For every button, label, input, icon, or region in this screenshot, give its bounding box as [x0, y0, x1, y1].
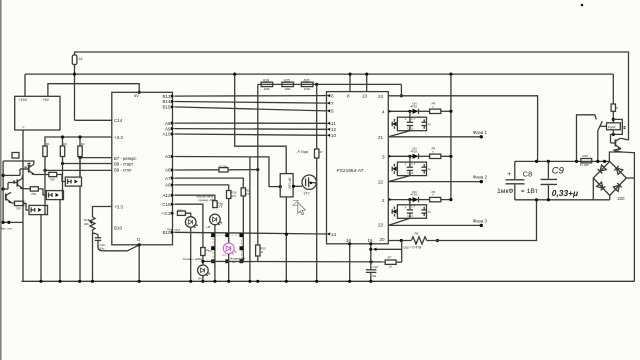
node bottom link dots	[201, 260, 204, 263]
svg-text:16: 16	[346, 238, 352, 243]
svg-text:C15: C15	[162, 202, 171, 207]
wire R16v down to selected LED	[228, 199, 230, 244]
wire opto U4 column down	[40, 215, 42, 282]
resistor R15	[201, 248, 205, 256]
svg-text:4F28: 4F28	[411, 104, 418, 108]
capacitor Cb1a	[409, 117, 411, 131]
wire ground bus	[22, 280, 635, 282]
wire VT3 gate	[293, 185, 302, 187]
wire opto U3 column down	[59, 200, 61, 282]
bootstrap box 2	[397, 162, 426, 176]
svg-text:R16: R16	[583, 154, 589, 158]
svg-text:3: 3	[382, 155, 385, 160]
wire A8 to pin11	[174, 122, 326, 124]
switch SW1 contact	[598, 121, 603, 130]
svg-text:+3.3: +3.3	[114, 135, 123, 140]
svg-text:VT3: VT3	[304, 192, 310, 196]
wire bridge left vertex down	[592, 178, 594, 200]
wire Q2 base	[8, 182, 17, 184]
wire pin16 down to bus	[349, 244, 351, 281]
resistor R19 bottom of chain column	[256, 245, 260, 256]
svg-text:6: 6	[331, 93, 334, 98]
node relay bottom	[612, 133, 615, 136]
wire VT3 source down to bus	[316, 183, 318, 281]
node R6 left	[400, 239, 403, 242]
svg-text:14: 14	[331, 232, 337, 237]
transistor Q1	[28, 166, 30, 173]
node pin15/arrow junction	[369, 248, 372, 251]
resistor R6 shunt zigzag	[411, 237, 427, 244]
selection handles	[211, 233, 215, 237]
wire chain top	[258, 83, 402, 85]
svg-text:Сд·З··: Сд·З··	[407, 214, 415, 218]
wire pullup columns down	[79, 157, 81, 178]
node terminal dots	[1, 221, 4, 224]
svg-text:75R: 75R	[31, 192, 36, 196]
capacitor Cb2b	[423, 164, 425, 174]
svg-text:(пο.): (пο.)	[222, 253, 228, 257]
svg-text:27: 27	[320, 150, 324, 154]
svg-text:R2: R2	[64, 142, 68, 146]
svg-text:Вкл. пит: Вкл. пит	[1, 226, 13, 230]
resistor R1 pullup	[43, 146, 47, 157]
wire C14 to IC	[75, 119, 112, 121]
IC U6 PS21964-AT	[327, 92, 389, 244]
wire A12 to R14	[174, 195, 215, 201]
svg-text:B9 - стоп: B9 - стоп	[114, 167, 131, 172]
capacitor C9	[547, 161, 549, 199]
svg-text:R25: R25	[284, 78, 290, 82]
wire U2 top feed	[79, 158, 81, 178]
wire phase output 1	[388, 136, 481, 138]
svg-text:A8: A8	[165, 121, 171, 126]
LED D2 indicator	[210, 214, 221, 225]
svg-text:13: 13	[362, 94, 368, 99]
wire Q1 emitter to R4	[34, 174, 49, 176]
svg-text:КН: КН	[198, 277, 202, 281]
svg-text:РэлR: РэлR	[608, 125, 616, 129]
wire +15V pin drop	[24, 74, 26, 96]
svg-text:A7: A7	[165, 176, 171, 181]
wire bridge bottom stub	[609, 196, 611, 200]
LED D1 indicator	[185, 217, 196, 228]
svg-text:4F28: 4F28	[411, 149, 418, 153]
wire chain column x258	[257, 84, 259, 245]
transistor VT3 MOSFET	[302, 175, 316, 189]
wire C8C9 top rail	[515, 160, 610, 162]
driver IC U5 gate driver	[280, 174, 293, 197]
wire RTorm to drain	[316, 158, 318, 183]
tick on collector wire	[28, 163, 31, 165]
svg-text:20: 20	[380, 237, 386, 242]
svg-text:C16: C16	[373, 265, 379, 269]
wire R5 to opto U3	[38, 189, 46, 195]
svg-text:A12: A12	[162, 193, 171, 198]
svg-text:+15V: +15V	[19, 98, 28, 102]
node driver/B10 crossing	[285, 233, 288, 236]
wire bottom link y261	[203, 260, 385, 263]
transistor Q3	[5, 194, 7, 201]
wire A3 to driver input	[174, 157, 280, 187]
svg-text:75R: 75R	[50, 178, 55, 182]
svg-text:Точная с шИМ: Точная с шИМ	[183, 257, 203, 261]
wire bus drop x234.7 to driver supply	[235, 74, 287, 174]
wire R6L to opto U4	[24, 203, 29, 210]
svg-text:23: 23	[378, 223, 384, 228]
svg-text:1μ: 1μ	[428, 167, 431, 171]
zener VD2z	[392, 167, 396, 172]
wire fuse down to C14 pin	[74, 65, 76, 121]
bootstrap box 1	[397, 117, 426, 131]
wire relay wrap	[613, 119, 622, 134]
node bus drop	[233, 73, 236, 76]
node pin24 junction	[400, 94, 403, 97]
svg-text:7: 7	[331, 101, 334, 106]
svg-text:1мкФ: 1мкФ	[497, 188, 514, 195]
svg-text:220: 220	[618, 196, 626, 201]
resistor R9a	[430, 109, 441, 113]
node rail taps	[535, 160, 538, 163]
svg-text:Фаза 3: Фаза 3	[473, 218, 488, 223]
svg-text:+5V: +5V	[43, 98, 50, 102]
svg-text:B14: B14	[162, 99, 171, 104]
resistor R3 pullup	[78, 146, 82, 157]
wire top rail drop to VT4 collector	[621, 138, 629, 140]
svg-text:1μ: 1μ	[428, 122, 431, 126]
wire R7 right up	[396, 261, 402, 263]
svg-text:ЗР-130: ЗР-130	[287, 178, 291, 189]
node cap tap 2	[408, 155, 411, 158]
svg-text:8: 8	[347, 94, 350, 99]
svg-text:A6: A6	[165, 168, 171, 173]
wire P loop	[577, 115, 597, 162]
wire chain down to pin24	[400, 84, 402, 95]
svg-text:A9: A9	[165, 126, 171, 131]
svg-text:A3: A3	[165, 154, 171, 159]
svg-text:C14: C14	[114, 118, 123, 123]
svg-text:Фаза 1: Фаза 1	[473, 130, 488, 135]
svg-text:B13: B13	[162, 94, 171, 99]
wire opto U2 column down	[79, 186, 81, 281]
node G pin	[138, 243, 141, 246]
wire switch pivot down	[597, 131, 599, 162]
wire cap tap down 3	[409, 200, 411, 205]
wire bridge right vertex out	[626, 177, 634, 179]
svg-text:+3.3: +3.3	[162, 211, 171, 216]
wire B9 line	[45, 169, 112, 171]
optocoupler U4	[29, 205, 48, 214]
resistor R16 series	[581, 159, 592, 163]
resistor R9b	[430, 154, 441, 158]
diode VD2	[413, 154, 419, 159]
wire R6 right to C8 column	[427, 200, 537, 241]
node cap tap 1	[408, 110, 411, 113]
wire diagonal pin2 to box	[388, 176, 410, 182]
svg-text:R Торм: R Торм	[298, 150, 310, 154]
wire diagonal pin1 to box	[388, 131, 410, 137]
node phase terminal 2	[480, 180, 483, 183]
wire +3.3 rail to pullups	[45, 137, 112, 146]
node pullup taps	[61, 135, 64, 138]
svg-text:Реж. пуск: Реж. пуск	[168, 228, 181, 232]
wire R17v down	[242, 196, 244, 262]
optocoupler U2	[65, 177, 81, 186]
wire pin line 3	[388, 199, 412, 201]
svg-text:R3: R3	[81, 142, 85, 146]
capacitor Cb3b	[423, 207, 425, 217]
svg-text:50n: 50n	[100, 246, 105, 250]
svg-text:21: 21	[378, 135, 384, 140]
wire U4 top feed	[44, 205, 46, 214]
svg-text:4F28: 4F28	[411, 193, 418, 197]
svg-text:R·10к: R·10к	[220, 165, 228, 169]
resistor R26	[301, 82, 313, 86]
svg-text:Rв: Rв	[373, 274, 377, 278]
svg-text:C8: C8	[523, 170, 532, 179]
wire +15V bus y74	[25, 73, 613, 75]
wire diagonal to G pin	[128, 245, 140, 251]
svg-text:Ржд: Ржд	[206, 249, 212, 253]
optocoupler U3	[46, 191, 63, 200]
power supply module PSU	[15, 96, 60, 130]
Z mark annotation	[293, 200, 299, 205]
wire R9 to vcc	[441, 110, 451, 112]
svg-text:5V: 5V	[134, 93, 139, 98]
wire R9 to vcc	[441, 199, 451, 201]
node fuse/bus junction	[73, 73, 76, 76]
svg-text:C·T: C·T	[411, 162, 416, 166]
wire B15 to pin5	[174, 107, 326, 111]
svg-text:КТ 480: КТ 480	[580, 163, 589, 167]
svg-text:100k: 100k	[285, 87, 292, 91]
transistor Q2	[16, 180, 18, 187]
svg-text:R7: R7	[388, 256, 392, 260]
node chain/A6 junction	[256, 168, 259, 171]
wire A3 column x250 down to bus	[249, 157, 251, 282]
svg-text:+: +	[405, 205, 407, 209]
wire left collector rail y161	[3, 161, 34, 165]
wire relay coil left lead	[600, 125, 606, 127]
wire VT4 emitter zigzag	[609, 149, 621, 162]
node bottom rail tap	[535, 198, 538, 201]
wire pin24 to C8 rail	[388, 96, 537, 162]
svg-text:R26: R26	[304, 78, 310, 82]
wire phase output 2	[388, 181, 481, 183]
wire bottom terminal pair	[3, 221, 23, 223]
wire A10 to pin10	[174, 134, 326, 135]
wire pin15 column	[370, 244, 372, 270]
bootstrap box 3	[397, 205, 426, 219]
wire R22 to relay	[612, 111, 614, 123]
svg-text:100k: 100k	[304, 87, 311, 91]
resistor R13 on +3.3	[177, 211, 185, 215]
zener VD3z	[392, 209, 396, 214]
svg-text:B8 - старт: B8 - старт	[114, 162, 133, 167]
wire B10 to PS pin14	[174, 232, 326, 234]
svg-text:= 1Вт: = 1Вт	[521, 188, 538, 195]
wire Q2 collector up	[21, 175, 23, 178]
svg-text:4: 4	[382, 109, 385, 114]
wire Q3 emitter to R6L	[11, 202, 14, 205]
wire arrow annotation to pin15	[377, 248, 402, 250]
svg-text:Фаза 2: Фаза 2	[473, 175, 488, 180]
svg-text:Uш = 0.47В: Uш = 0.47В	[404, 246, 423, 250]
wire cap tap down 1	[409, 111, 411, 117]
svg-text:10: 10	[331, 133, 337, 138]
wire Q1 base	[20, 168, 29, 170]
wire pin13 stub to bus	[366, 74, 368, 92]
wire +3.3 to R12	[93, 207, 112, 218]
wire cap tap down 2	[409, 156, 411, 162]
node 5V pin	[138, 91, 141, 94]
wire A9 to pin12	[174, 128, 326, 131]
node chain/RTorm tap	[315, 83, 318, 86]
resistor R5	[30, 187, 38, 191]
wire pin line 2	[388, 155, 412, 157]
svg-text:C·T: C·T	[411, 117, 416, 121]
wire driver down to ground bus	[285, 197, 287, 281]
resistor R9c	[430, 197, 441, 201]
node stray dot top right	[581, 4, 584, 7]
svg-text:40k: 40k	[84, 222, 89, 226]
diode VD3	[413, 197, 419, 202]
wire junction drop	[401, 241, 403, 263]
node phase terminal 3	[480, 224, 483, 227]
svg-text:PS21964-AT: PS21964-AT	[337, 168, 364, 174]
wire VT4 base from relay	[611, 134, 614, 143]
svg-text:A0: A0	[165, 183, 171, 188]
wire top rail y52 from fuse to right edge	[75, 52, 629, 140]
wire R4 to opto U2	[57, 175, 66, 182]
svg-text:11: 11	[331, 121, 336, 126]
resistor R14	[213, 201, 217, 208]
resistor R4	[49, 172, 57, 176]
resistor R24	[261, 82, 273, 86]
svg-text:СПГ: СПГ	[218, 205, 224, 209]
svg-text:+: +	[508, 172, 512, 178]
diode VD1	[413, 109, 419, 114]
svg-text:R1: R1	[46, 142, 50, 146]
node relay top	[612, 118, 615, 121]
diode bridge VD5-VD8	[593, 161, 626, 195]
IC U1 microcontroller	[112, 92, 173, 245]
svg-text:1μ: 1μ	[428, 210, 431, 214]
wire R9 to vcc	[441, 155, 451, 157]
wire A0 to R16v column	[174, 185, 228, 191]
svg-text:B7 - реверс: B7 - реверс	[114, 156, 136, 161]
capacitor C8	[514, 161, 516, 199]
svg-text:100k: 100k	[264, 87, 271, 91]
zener VD1z	[392, 122, 396, 127]
wire diagonal pin3 to box	[388, 218, 410, 225]
potentiometer R12	[90, 217, 95, 230]
capacitor Cb1b	[423, 119, 425, 129]
wire +5V branch y84	[48, 84, 139, 97]
wire PSU minus down to ground bus	[22, 130, 24, 281]
wire vcc vertical x451	[450, 74, 452, 200]
svg-text:C·T: C·T	[411, 205, 416, 209]
wire base rail	[3, 174, 20, 176]
wire phase output 3	[388, 224, 481, 226]
svg-text:Сд·З··: Сд·З··	[407, 126, 415, 130]
svg-text:R24: R24	[263, 78, 269, 82]
left screen edge strip	[0, 0, 2, 360]
svg-text:5: 5	[331, 109, 334, 114]
resistor R22	[611, 104, 615, 111]
svg-text:⧈: ⧈	[616, 106, 618, 110]
svg-text:22: 22	[378, 180, 384, 185]
mouse cursor	[298, 202, 306, 214]
resistor R18 on A6	[219, 168, 228, 172]
svg-text:2: 2	[382, 198, 385, 203]
svg-text:15: 15	[368, 238, 374, 243]
wire A7 to R17v column	[174, 178, 243, 188]
capacitor Cb2a	[409, 162, 411, 176]
wire RTorm column top	[316, 84, 318, 149]
wire pin8 stub to bus	[349, 74, 351, 92]
selection rectangle dashed	[213, 235, 241, 261]
wire R12 down to ground bus	[92, 230, 94, 281]
wire A6 to chain column	[174, 169, 219, 171]
svg-text:12: 12	[331, 127, 337, 132]
resistor R7	[385, 260, 396, 264]
node driver input	[279, 185, 282, 188]
svg-text:Сд·З··: Сд·З··	[407, 171, 415, 175]
wire pin line 1	[388, 110, 412, 112]
wire C15 to R15 column	[174, 204, 203, 247]
fuse F1	[72, 55, 77, 65]
wire R18 to chain column	[228, 169, 258, 171]
wire left vertical terminal	[2, 161, 4, 222]
LED D3 indicator	[198, 265, 209, 276]
svg-text:24: 24	[378, 94, 384, 99]
wire B13 to pin6	[174, 95, 326, 98]
transistor VT4	[614, 140, 616, 147]
resistor R25	[282, 82, 294, 86]
svg-text:27k: 27k	[232, 194, 237, 198]
node left dot a	[1, 174, 4, 177]
wire R13 to LED D1	[185, 213, 190, 217]
resistor R16v	[227, 191, 231, 199]
wire pin20 shunt line	[388, 240, 411, 242]
resistor R6L	[15, 201, 24, 205]
capacitor C16	[366, 269, 377, 271]
node left dot b	[1, 187, 4, 190]
node bridge feed	[603, 160, 606, 163]
resistor R2 pullup	[60, 146, 64, 157]
wire B14 to pin7	[174, 102, 326, 104]
capacitor C10	[93, 233, 99, 237]
svg-text:75R: 75R	[16, 206, 21, 210]
svg-text:R6: R6	[415, 232, 419, 236]
wire R19 to link	[257, 256, 259, 262]
wire G to ground bus	[138, 245, 140, 281]
wire U3 top feed	[62, 191, 64, 200]
wire bus right drop	[612, 74, 614, 104]
svg-text:=: =	[22, 124, 25, 129]
wire psu corner	[22, 280, 24, 282]
wire R15 to D3 to bus	[202, 256, 204, 266]
svg-text:провод +5В: провод +5В	[199, 198, 215, 202]
capacitor Cb3a	[409, 205, 411, 219]
wire B7 line	[80, 157, 112, 159]
svg-text:G: G	[137, 237, 141, 243]
wire C16 to bus	[370, 272, 372, 281]
wire C8C9 bottom rail	[515, 199, 610, 201]
svg-text:R13: R13	[178, 209, 184, 213]
svg-text:0,33+μ: 0,33+μ	[552, 188, 578, 198]
svg-text:A10: A10	[162, 132, 171, 137]
